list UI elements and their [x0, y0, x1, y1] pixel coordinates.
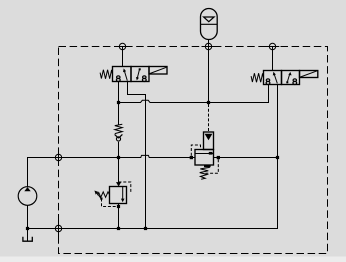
valve V1 body box 1	[113, 67, 132, 82]
cartridge valve bottom stub	[204, 165, 211, 167]
cartridge pilot line (dashed)	[208, 104, 210, 132]
wire: right valve top port to port circle	[272, 47, 274, 71]
accumulator gas/fluid divider line	[201, 23, 218, 25]
valve V2 return spring	[251, 73, 263, 82]
relief valve internal arrow	[121, 199, 125, 203]
wire: relief valve inlet from bus	[118, 158, 120, 184]
wire: upper pressure line y=102.5 with hop over x=145.5	[119, 85, 269, 103]
valve V1 body box 2	[131, 67, 149, 82]
wire: left valve top port to port circle	[122, 47, 124, 67]
wire: relief valve drain to bottom bus	[118, 204, 120, 229]
check valve seat	[115, 134, 123, 138]
valve V2 solenoid	[300, 71, 318, 78]
accumulator capsule	[201, 9, 218, 40]
valve V2 box2 blocked port 8	[293, 79, 297, 85]
port circle T1 (left border, tank line)	[55, 225, 61, 231]
valve V1 box2 flow arrow	[137, 69, 139, 79]
check valve spring	[115, 124, 123, 133]
valve V1 return spring	[100, 70, 112, 79]
cartridge valve poppet (filled triangle)	[205, 134, 213, 140]
check valve ball	[116, 137, 120, 141]
pump circle	[18, 187, 37, 206]
wire: check valve line upper segment	[118, 103, 120, 125]
relief valve spring	[97, 192, 109, 197]
cartridge spring drain (dashed)	[206, 159, 219, 173]
junction node relief drain / dashed box	[117, 205, 120, 208]
junction node riser x=145.5 / bottom bus	[144, 227, 147, 230]
cartridge valve right port square	[217, 156, 220, 159]
relief valve drain dashes (bottom-left)	[102, 199, 119, 207]
wire: main bus y=157.5 right part	[214, 157, 278, 159]
junction node right valve riser / main bus	[276, 156, 279, 159]
wire: right valve bottom-right port down and bottom bus to pump	[28, 85, 278, 229]
wire stubs through border port circles	[59, 47, 280, 237]
junction node relief drain / bottom bus	[117, 227, 120, 230]
wire: tank stem	[27, 229, 29, 242]
wire: left valve bottom-right port L to x=145.5 riser down to bottom bus	[128, 82, 146, 229]
valve V1 box1 blocked port 8	[116, 76, 120, 82]
junction node at left valve drain / upper line	[117, 101, 120, 104]
cartridge valve spring	[200, 167, 210, 179]
accumulator gas triangle	[204, 17, 215, 22]
relief valve internal passage	[122, 187, 124, 200]
manifold enclosure (dashed boundary)	[59, 47, 328, 254]
valve V1 box2 blocked port 8	[142, 76, 146, 82]
port circle ACC (top border, accumulator line)	[205, 43, 211, 49]
port circle A (top border, right valve line)	[269, 43, 275, 49]
valve V2 box1 blocked port 8	[266, 79, 270, 85]
cartridge valve seat square	[209, 152, 213, 155]
relief valve body	[110, 187, 127, 204]
junction node pump line / bottom bus	[26, 227, 29, 230]
cartridge left pilot passage (dashed)	[191, 145, 200, 156]
wire: main bus y=157.5 left part with hop over x=145.5	[28, 155, 196, 186]
tank symbol	[23, 237, 32, 241]
valve V2 body box 1	[264, 71, 282, 85]
relief valve adjustment arrow	[97, 193, 102, 200]
relief valve inlet arrow	[116, 182, 121, 186]
valve V2 box1 flow arrow	[274, 74, 277, 84]
junction node accumulator / upper line	[207, 101, 210, 104]
valve V2 body box 2	[282, 71, 300, 85]
wire: left valve bottom-left port down	[118, 82, 120, 103]
wire: check valve line lower segment	[118, 142, 120, 158]
pump flow triangle	[24, 187, 30, 191]
valve V2 box2 flow arrow	[288, 74, 290, 81]
cartridge valve poppet housing	[204, 132, 214, 150]
cartridge valve main body	[195, 150, 214, 166]
wire: pump outlet bottom to bottom bus	[27, 205, 29, 228]
junction node check valve / main bus	[117, 156, 120, 159]
cartridge valve seat line	[195, 153, 214, 155]
port circle P1 (left border, pump line)	[55, 154, 61, 160]
wire: accumulator stem down to pressure node	[208, 40, 210, 103]
valve V1 box1 flow arrow	[124, 70, 127, 80]
valve V1 solenoid	[149, 67, 167, 75]
port circle P (top border, left valve line)	[119, 43, 125, 49]
relief valve pilot dashes (top)	[119, 182, 131, 193]
cartridge valve left port square	[190, 156, 193, 159]
